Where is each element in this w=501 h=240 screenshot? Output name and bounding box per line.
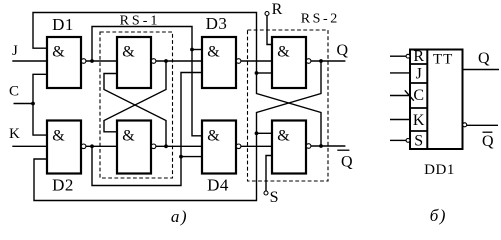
- svg-text:R: R: [413, 48, 424, 65]
- svg-text:K: K: [9, 126, 20, 142]
- DD1 symbol body TT: [410, 50, 463, 150]
- NAND gate D4: [202, 121, 241, 174]
- wire: C clock net to D1 in3 and D2 in1: [14, 103, 34, 105]
- NAND gate RS-1 top: [117, 37, 156, 88]
- wire: C vertical branch: [33, 74, 47, 135]
- node: C junction: [31, 102, 35, 106]
- wire: inhibit connection D2 output to D4/D3 third inputs: [92, 73, 202, 186]
- dashed box RS-1: [100, 32, 173, 178]
- wire: stub into D4 input 3: [181, 156, 202, 158]
- node: Q-bar output tap: [319, 144, 323, 148]
- svg-text:а): а): [171, 207, 188, 226]
- svg-text:&: &: [277, 43, 290, 60]
- svg-text:D4: D4: [207, 176, 229, 195]
- node: Q output tap: [319, 59, 323, 63]
- svg-text:&: &: [277, 127, 290, 144]
- node: D1 output tap: [90, 59, 94, 63]
- node: RS-1 bottom output tap: [164, 144, 168, 148]
- wire: D2 output to RS-1 bottom gate: [86, 145, 117, 147]
- wire: RS-1 cross coupling, top output to bottom gate input: [104, 61, 166, 132]
- dynamic input arrow on C: [405, 90, 414, 100]
- svg-text:J: J: [12, 43, 18, 59]
- wire: stub into RS-2 top gate input 3: [257, 72, 273, 74]
- svg-text:D3: D3: [206, 14, 228, 33]
- svg-text:J: J: [416, 65, 422, 82]
- node: RS-1 top output tap: [164, 59, 168, 63]
- terminal R: [265, 12, 269, 16]
- wire: top feedback (Q-bar net) from RS-2 to D1 input 1: [33, 13, 257, 74]
- wire: stub into RS-2 bottom gate input 1: [257, 132, 273, 134]
- pin box divider J/C: [410, 82, 427, 84]
- DD1 input field divider: [426, 50, 428, 150]
- wire: Q-bar output line: [311, 145, 345, 147]
- pin box divider C/K: [410, 107, 427, 109]
- NAND gate RS-2 top: [272, 37, 311, 88]
- wire: Q output line: [311, 60, 345, 62]
- wire: RS-1 top gate output to D3: [156, 60, 202, 62]
- wire: Q output line of DD1: [464, 69, 500, 71]
- svg-text:S: S: [270, 189, 279, 206]
- terminal S: [264, 191, 268, 195]
- svg-text:&: &: [52, 43, 65, 60]
- wire: stub into D3 input 1: [192, 49, 202, 51]
- wire: R input to RS-2 top gate: [267, 16, 272, 45]
- wire: bottom feedback (Q net) from RS-2 to D2 input 3: [34, 133, 257, 200]
- wire: S input line of DD1: [390, 139, 406, 141]
- node: RS-2 top gate input 3 tap: [255, 71, 259, 75]
- svg-text:&: &: [52, 127, 65, 144]
- svg-text:RS-2: RS-2: [301, 12, 340, 27]
- svg-text:C: C: [413, 87, 424, 104]
- wire: Q-bar output line of DD1: [467, 124, 498, 126]
- svg-text:&: &: [207, 127, 220, 144]
- wire: D4 output to RS-2 bottom gate: [241, 145, 272, 147]
- svg-text:D2: D2: [52, 176, 74, 195]
- wire: R input line of DD1: [390, 55, 406, 57]
- svg-text:б): б): [430, 206, 447, 225]
- node: D2 output tap: [90, 144, 94, 148]
- svg-text:&: &: [122, 127, 135, 144]
- dashed box RS-2: [248, 30, 329, 181]
- svg-text:Q: Q: [341, 154, 353, 171]
- NAND gate RS-1 bottom: [117, 121, 156, 174]
- wire: D3 output to RS-2 top gate: [241, 60, 272, 62]
- wire: C input line of DD1: [390, 95, 410, 97]
- svg-text:&: &: [122, 43, 135, 60]
- wire: RS-2 cross coupling, Q-bar to top gate input: [257, 73, 322, 146]
- overline of Q-bar: [337, 149, 349, 151]
- svg-text:Q: Q: [337, 42, 349, 59]
- inversion circle on Q-bar output: [463, 123, 467, 127]
- pin box divider K/S: [410, 130, 427, 132]
- svg-text:Q: Q: [478, 50, 490, 67]
- overline of DD1 Q-bar: [483, 131, 493, 133]
- NAND gate RS-2 bottom: [272, 121, 311, 174]
- wire: J input line of DD1: [390, 72, 410, 74]
- wire: S input to RS-2 bottom gate: [266, 156, 272, 192]
- node: D3 input 1 tap: [190, 48, 194, 52]
- inversion circle on S input: [406, 139, 410, 143]
- wire: J input line: [12, 60, 47, 62]
- svg-text:Q: Q: [482, 133, 494, 150]
- inversion circle on R input: [406, 54, 410, 58]
- svg-text:C: C: [9, 84, 19, 100]
- svg-text:R: R: [272, 1, 283, 18]
- NAND gate D1: [47, 37, 86, 88]
- wire: RS-2 cross coupling, Q to bottom gate input: [257, 61, 322, 133]
- node: RS-2 bottom gate input 1 tap: [255, 131, 259, 135]
- svg-text:TT: TT: [433, 52, 453, 68]
- wire: RS-1 cross coupling, bottom output to top gate input: [104, 74, 166, 147]
- NAND gate D2: [47, 121, 86, 174]
- svg-text:S: S: [414, 132, 423, 149]
- svg-text:K: K: [413, 112, 425, 129]
- NAND gate D3: [202, 37, 241, 88]
- svg-text:&: &: [207, 43, 220, 60]
- wire: inhibit connection D1 output to D3/D4 first inputs: [92, 27, 202, 136]
- wire: D1 output to RS-1 top gate: [86, 60, 117, 62]
- pin box divider R/J: [410, 63, 427, 65]
- wire: RS-1 bottom gate output to D4: [156, 145, 202, 147]
- svg-text:RS-1: RS-1: [120, 13, 161, 28]
- wire: K input line: [12, 145, 47, 147]
- node: D4 input 3 tap: [179, 155, 183, 159]
- wire: K input line of DD1: [390, 119, 410, 121]
- svg-text:D1: D1: [52, 15, 74, 34]
- svg-text:DD1: DD1: [424, 162, 455, 178]
